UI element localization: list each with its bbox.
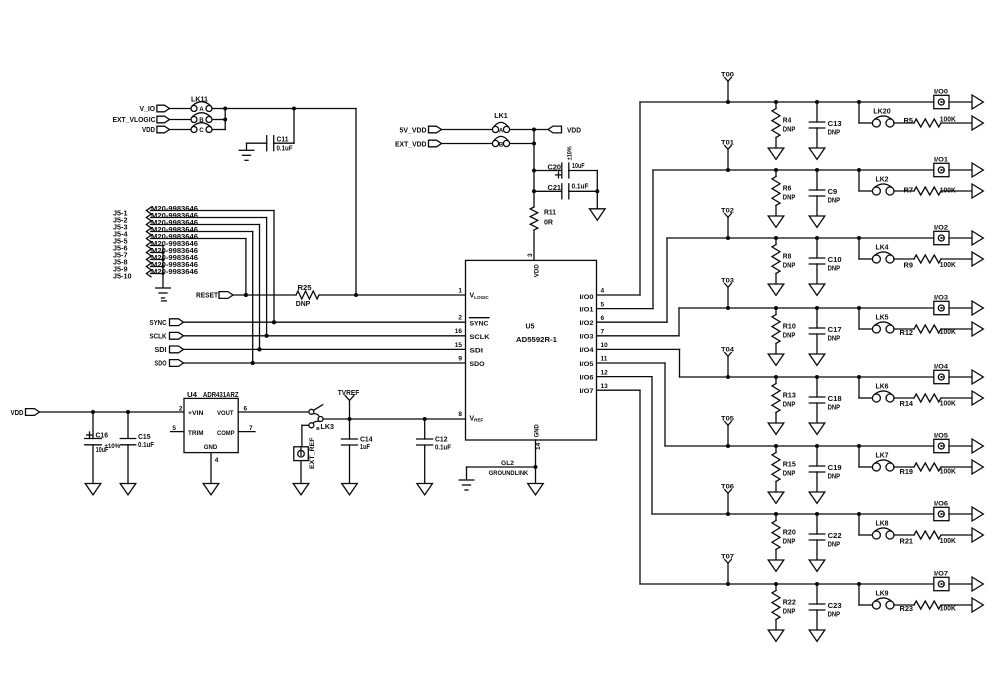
IC U4 ADR431ARZ bbox=[184, 392, 239, 453]
junction bbox=[272, 320, 276, 324]
connector EXT_VDD bbox=[395, 140, 442, 148]
svg-text:5: 5 bbox=[601, 301, 605, 308]
svg-text:V_IO: V_IO bbox=[140, 106, 156, 113]
svg-text:14: 14 bbox=[535, 442, 542, 450]
svg-text:10: 10 bbox=[601, 342, 609, 349]
junction bbox=[726, 236, 730, 240]
svg-text:±10%: ±10% bbox=[105, 444, 121, 450]
testpoint T01 bbox=[721, 140, 734, 170]
pin 7 number bbox=[601, 329, 605, 336]
svg-text:VDD: VDD bbox=[11, 410, 24, 417]
wire bbox=[184, 348, 466, 350]
resistor R22 DNP bbox=[772, 584, 796, 630]
junction bbox=[354, 293, 358, 297]
testpoint T03 bbox=[721, 278, 734, 308]
ground bbox=[203, 484, 219, 495]
ground bbox=[590, 209, 606, 220]
wire branch bbox=[859, 377, 873, 398]
offpage connector bbox=[972, 301, 983, 315]
wire I/O7 route bbox=[597, 390, 935, 584]
capacitor C21 0.1uF bbox=[548, 184, 590, 199]
wire bbox=[151, 259, 164, 261]
junction bbox=[726, 444, 730, 448]
svg-text:SDO: SDO bbox=[155, 361, 167, 368]
junction bbox=[774, 236, 778, 240]
junction bbox=[534, 465, 538, 469]
wire bbox=[534, 170, 562, 172]
jumper LK5 bbox=[872, 315, 894, 333]
pin 16 number bbox=[455, 328, 463, 335]
junction bbox=[162, 258, 165, 261]
capacitor C23 DNP bbox=[809, 584, 841, 630]
svg-text:R20: R20 bbox=[783, 530, 796, 537]
wire bbox=[894, 258, 914, 260]
junction bbox=[774, 582, 778, 586]
svg-text:7: 7 bbox=[249, 425, 253, 432]
pin 10 number bbox=[601, 342, 609, 349]
svg-text:R23: R23 bbox=[900, 606, 914, 613]
ground bbox=[768, 354, 784, 365]
ground bbox=[768, 630, 784, 641]
wire bbox=[319, 294, 465, 296]
svg-text:SCLK: SCLK bbox=[470, 334, 490, 341]
ground bbox=[85, 484, 101, 495]
ground bbox=[809, 423, 825, 434]
svg-text:EXT_REF: EXT_REF bbox=[309, 437, 316, 469]
wire I/O2 route bbox=[597, 238, 935, 322]
testpoint TVREF bbox=[338, 390, 360, 419]
junction bbox=[251, 361, 255, 365]
svg-text:J5-2: J5-2 bbox=[113, 217, 128, 224]
junction bbox=[815, 236, 819, 240]
offpage connector bbox=[972, 507, 983, 521]
ground bbox=[156, 288, 171, 298]
svg-text:SCLK: SCLK bbox=[150, 333, 167, 340]
svg-text:T00: T00 bbox=[721, 72, 734, 79]
pin 6 number bbox=[601, 315, 605, 322]
capacitor C12 0.1uF bbox=[417, 419, 452, 484]
svg-text:R15: R15 bbox=[783, 462, 796, 469]
svg-text:C15: C15 bbox=[138, 434, 151, 441]
ground bbox=[809, 284, 825, 295]
resistor R14 100K bbox=[900, 394, 956, 408]
connector I/O0 bbox=[934, 89, 949, 109]
net GL2 GROUNDLINK bbox=[467, 460, 536, 479]
connector I/O5 bbox=[934, 433, 949, 453]
svg-text:I/O0: I/O0 bbox=[934, 89, 948, 96]
pin 15 number bbox=[455, 342, 463, 349]
svg-text:ADR431ARZ: ADR431ARZ bbox=[203, 392, 239, 399]
resistor R15 DNP bbox=[772, 446, 796, 492]
svg-text:9: 9 bbox=[458, 355, 462, 362]
svg-text:C19: C19 bbox=[828, 465, 842, 472]
wire I/O5 route bbox=[597, 363, 935, 446]
junction bbox=[815, 100, 819, 104]
junction bbox=[857, 582, 861, 586]
ground bbox=[809, 354, 825, 365]
pin 5 number bbox=[601, 301, 605, 308]
junction bbox=[726, 375, 730, 379]
ground bbox=[768, 216, 784, 227]
offpage connector bbox=[972, 391, 983, 405]
svg-text:R5: R5 bbox=[904, 118, 914, 125]
svg-text:C13: C13 bbox=[828, 121, 842, 128]
connector I/O6 bbox=[934, 501, 949, 521]
testpoint T07 bbox=[721, 554, 734, 584]
svg-text:10uF: 10uF bbox=[572, 163, 585, 170]
svg-text:I/O3: I/O3 bbox=[580, 334, 594, 341]
svg-text:DNP: DNP bbox=[828, 473, 841, 480]
svg-text:EXT_VLOGIC: EXT_VLOGIC bbox=[113, 117, 156, 124]
svg-text:T02: T02 bbox=[721, 208, 734, 215]
junction bbox=[857, 444, 861, 448]
svg-text:I/O2: I/O2 bbox=[580, 320, 594, 327]
svg-text:M20-9983646: M20-9983646 bbox=[151, 241, 198, 248]
resistor R7 100K bbox=[904, 187, 956, 195]
ground bbox=[768, 284, 784, 295]
svg-text:C: C bbox=[199, 127, 204, 134]
connector I/O2 bbox=[934, 225, 949, 245]
svg-text:DNP: DNP bbox=[783, 263, 796, 270]
wire bbox=[151, 266, 164, 268]
svg-text:DNP: DNP bbox=[828, 265, 841, 272]
capacitor C17 DNP bbox=[809, 308, 841, 354]
svg-text:GND: GND bbox=[204, 444, 218, 451]
svg-text:J5-4: J5-4 bbox=[113, 231, 128, 238]
junction bbox=[857, 236, 861, 240]
svg-text:C14: C14 bbox=[360, 437, 373, 444]
svg-text:R21: R21 bbox=[900, 539, 914, 546]
junction bbox=[223, 107, 227, 122]
svg-text:5V_VDD: 5V_VDD bbox=[400, 127, 427, 134]
wire bbox=[949, 513, 972, 515]
junction bbox=[595, 189, 599, 193]
capacitor C10 DNP bbox=[809, 238, 841, 284]
jumper LK8 bbox=[872, 521, 894, 539]
svg-text:J5-6: J5-6 bbox=[113, 245, 128, 252]
testpoint T05 bbox=[721, 416, 734, 446]
ground bbox=[768, 492, 784, 503]
junction bbox=[162, 272, 165, 275]
pin 14 number bbox=[535, 442, 542, 450]
resistor R8 DNP bbox=[772, 238, 796, 284]
wire bbox=[302, 425, 309, 447]
ground bbox=[768, 148, 784, 159]
svg-text:DNP: DNP bbox=[828, 335, 841, 342]
svg-text:DNP: DNP bbox=[828, 197, 841, 204]
svg-text:2: 2 bbox=[179, 406, 183, 413]
wire branch bbox=[859, 102, 873, 123]
wire bbox=[949, 237, 972, 239]
svg-text:J5-5: J5-5 bbox=[113, 238, 128, 245]
wire branch bbox=[859, 446, 873, 467]
junction bbox=[857, 375, 861, 379]
svg-text:8: 8 bbox=[458, 411, 462, 418]
svg-text:C20: C20 bbox=[548, 165, 562, 172]
junction bbox=[726, 512, 730, 516]
connector J5 pin J5-8 bbox=[113, 255, 198, 267]
svg-text:M20-9983646: M20-9983646 bbox=[151, 262, 198, 269]
junction bbox=[774, 375, 778, 379]
junction bbox=[265, 334, 269, 338]
svg-text:LK20: LK20 bbox=[873, 109, 891, 116]
svg-text:100K: 100K bbox=[940, 329, 956, 336]
svg-text:SDI: SDI bbox=[470, 347, 484, 354]
wire bbox=[151, 211, 275, 323]
wire bbox=[941, 466, 972, 468]
connector SCLK bbox=[150, 332, 184, 340]
wire bbox=[184, 362, 466, 364]
wire bbox=[151, 232, 253, 364]
svg-text:GROUNDLINK: GROUNDLINK bbox=[489, 470, 529, 477]
junction bbox=[815, 582, 819, 586]
wire U4 GND pin 4 bbox=[211, 453, 219, 484]
junction bbox=[162, 265, 165, 268]
wire bbox=[442, 143, 492, 145]
wire branch bbox=[859, 238, 873, 259]
offpage connector bbox=[972, 184, 983, 198]
wire I/O0 route bbox=[597, 102, 935, 295]
capacitor C18 DNP bbox=[809, 377, 841, 423]
junction bbox=[815, 512, 819, 516]
svg-text:C12: C12 bbox=[435, 437, 448, 444]
junction bbox=[774, 100, 778, 104]
wire bbox=[941, 258, 972, 260]
jumper LK20 bbox=[872, 109, 894, 127]
connector EXT_VLOGIC bbox=[113, 116, 170, 124]
svg-text:COMP: COMP bbox=[217, 430, 235, 437]
wire bbox=[534, 171, 597, 209]
svg-text:R12: R12 bbox=[900, 330, 914, 337]
svg-text:J5-3: J5-3 bbox=[113, 224, 128, 231]
svg-text:B: B bbox=[499, 141, 504, 148]
svg-text:R19: R19 bbox=[900, 469, 914, 476]
svg-text:I/O0: I/O0 bbox=[580, 294, 594, 301]
wire branch bbox=[859, 514, 873, 535]
wire GND pin bbox=[535, 440, 537, 484]
wire bbox=[151, 245, 164, 247]
wire bbox=[170, 119, 191, 121]
pin 5 TRIM stub bbox=[171, 425, 185, 432]
jumper LK4 bbox=[872, 245, 894, 263]
pin 1 number bbox=[458, 288, 462, 295]
offpage connector bbox=[972, 460, 983, 474]
pin 8 number bbox=[458, 411, 462, 418]
svg-text:C21: C21 bbox=[548, 185, 562, 192]
ground bbox=[809, 492, 825, 503]
svg-text:M20-9983646: M20-9983646 bbox=[151, 234, 198, 241]
junction bbox=[251, 361, 255, 365]
junction bbox=[857, 100, 861, 104]
svg-text:R11: R11 bbox=[544, 210, 556, 217]
wire bbox=[151, 239, 246, 296]
svg-text:DNP: DNP bbox=[783, 333, 796, 340]
wire bbox=[151, 252, 164, 254]
wire I/O1 route bbox=[597, 170, 935, 309]
wire bbox=[533, 230, 535, 260]
svg-text:M20-9983646: M20-9983646 bbox=[151, 248, 198, 255]
connector EXT_REF bbox=[294, 437, 316, 469]
svg-text:I/O1: I/O1 bbox=[934, 157, 948, 164]
wire bbox=[151, 218, 267, 336]
wire bbox=[212, 109, 225, 130]
ground bbox=[417, 484, 433, 495]
svg-text:R13: R13 bbox=[783, 393, 796, 400]
connector J5 pin J5-4 bbox=[113, 227, 198, 239]
connector 5V_VDD bbox=[400, 126, 442, 134]
svg-text:0.1uF: 0.1uF bbox=[435, 444, 452, 451]
svg-text:3: 3 bbox=[527, 253, 534, 257]
connector I/O4 bbox=[934, 364, 949, 384]
svg-text:SYNC: SYNC bbox=[470, 320, 489, 327]
connector J5 pin J5-7 bbox=[113, 248, 198, 259]
svg-text:I/O4: I/O4 bbox=[580, 347, 594, 354]
resistor R9 100K bbox=[904, 255, 956, 270]
pin 4 number bbox=[601, 288, 605, 295]
ground bbox=[342, 484, 358, 495]
wire bbox=[941, 534, 972, 536]
ground bbox=[528, 484, 544, 495]
svg-text:DNP: DNP bbox=[783, 609, 796, 616]
junction bbox=[726, 168, 730, 172]
connector J5 pin J5-9 bbox=[113, 262, 198, 274]
wire bbox=[941, 397, 972, 399]
junction bbox=[244, 293, 248, 297]
junction bbox=[774, 444, 778, 448]
svg-text:100K: 100K bbox=[940, 262, 956, 269]
connector I/O1 bbox=[934, 157, 949, 177]
wire I/O3 route bbox=[597, 308, 935, 336]
wire bbox=[894, 397, 914, 399]
wire bbox=[274, 109, 294, 144]
ground bbox=[120, 484, 136, 495]
svg-text:R25: R25 bbox=[298, 285, 312, 292]
junction bbox=[857, 168, 861, 172]
wire VOUT bbox=[238, 411, 309, 413]
junction bbox=[265, 334, 269, 338]
svg-text:C22: C22 bbox=[828, 533, 842, 540]
offpage connector bbox=[972, 163, 983, 177]
svg-text:U5: U5 bbox=[526, 324, 535, 331]
wire bbox=[170, 129, 191, 131]
resistor R5 100K bbox=[904, 117, 956, 128]
wire bbox=[941, 190, 972, 192]
svg-text:0R: 0R bbox=[544, 220, 553, 227]
wire branch bbox=[859, 308, 873, 329]
wire bbox=[894, 534, 914, 536]
resistor R13 DNP bbox=[772, 377, 796, 423]
junction bbox=[348, 417, 427, 421]
svg-text:C9: C9 bbox=[828, 189, 838, 196]
wire bbox=[233, 294, 296, 296]
svg-text:DNP: DNP bbox=[828, 611, 841, 618]
svg-text:DNP: DNP bbox=[296, 301, 311, 308]
testpoint T06 bbox=[721, 484, 734, 514]
svg-text:GND: GND bbox=[534, 424, 541, 438]
wire bbox=[894, 604, 914, 606]
connector I/O3 bbox=[934, 295, 949, 315]
svg-text:LK4: LK4 bbox=[876, 245, 889, 252]
svg-text:I/O5: I/O5 bbox=[580, 361, 594, 368]
svg-text:100K: 100K bbox=[940, 401, 956, 408]
offpage connector bbox=[972, 95, 983, 109]
resistor R21 100K bbox=[900, 531, 956, 546]
wire I/O4 route bbox=[597, 349, 935, 377]
jumper LK7 bbox=[872, 453, 894, 471]
svg-text:0.1uF: 0.1uF bbox=[138, 442, 155, 449]
resistor R25 DNP bbox=[296, 285, 319, 308]
wire bbox=[949, 445, 972, 447]
svg-text:11: 11 bbox=[601, 356, 608, 363]
svg-text:DNP: DNP bbox=[783, 402, 796, 409]
svg-text:C17: C17 bbox=[828, 327, 842, 334]
wire bbox=[151, 273, 164, 275]
capacitor C16 10uF bbox=[85, 412, 121, 484]
connector VDD (VLOGIC select input) bbox=[142, 126, 170, 134]
ground bbox=[809, 630, 825, 641]
svg-text:T05: T05 bbox=[721, 416, 734, 423]
svg-text:J5-1: J5-1 bbox=[113, 210, 128, 217]
capacitor C15 0.1uF bbox=[120, 412, 154, 484]
pin 12 number bbox=[601, 369, 609, 376]
testpoint T04 bbox=[721, 347, 734, 377]
svg-text:C18: C18 bbox=[828, 396, 842, 403]
svg-text:U4: U4 bbox=[187, 392, 197, 399]
offpage connector bbox=[972, 116, 983, 130]
svg-text:R9: R9 bbox=[904, 263, 914, 270]
connector J5 pin J5-3 bbox=[113, 220, 198, 232]
pin 11 number bbox=[601, 356, 608, 363]
pin 9 number bbox=[458, 355, 462, 362]
svg-text:LK8: LK8 bbox=[876, 521, 889, 528]
junction bbox=[857, 512, 861, 516]
offpage connector bbox=[972, 439, 983, 453]
svg-text:I/O2: I/O2 bbox=[934, 225, 948, 232]
resistor R23 100K bbox=[900, 601, 956, 613]
junction bbox=[774, 512, 778, 516]
svg-text:SDI: SDI bbox=[155, 347, 167, 354]
wire bbox=[941, 604, 972, 606]
svg-text:R4: R4 bbox=[783, 118, 792, 125]
resistor R12 100K bbox=[900, 325, 956, 337]
junction bbox=[244, 293, 248, 297]
svg-text:LK3: LK3 bbox=[321, 424, 335, 431]
wire bbox=[941, 122, 972, 124]
ground bbox=[809, 216, 825, 227]
svg-text:100K: 100K bbox=[940, 538, 956, 545]
junction bbox=[815, 306, 819, 310]
junction bbox=[726, 100, 730, 104]
testpoint T02 bbox=[721, 208, 734, 238]
wire VDD net bbox=[510, 130, 548, 208]
pin 2 number bbox=[179, 406, 183, 413]
svg-text:M20-9983646: M20-9983646 bbox=[151, 269, 198, 276]
svg-text:R6: R6 bbox=[783, 186, 792, 193]
connector V_IO bbox=[140, 105, 170, 113]
svg-text:DNP: DNP bbox=[783, 539, 796, 546]
svg-text:C10: C10 bbox=[828, 257, 842, 264]
wire bbox=[247, 143, 267, 150]
junction bbox=[258, 347, 262, 351]
svg-text:TRIM: TRIM bbox=[188, 430, 204, 437]
svg-text:VDD: VDD bbox=[567, 128, 581, 135]
capacitor C22 DNP bbox=[809, 514, 841, 560]
wire bbox=[894, 466, 914, 468]
svg-text:100K: 100K bbox=[940, 469, 956, 476]
svg-text:5: 5 bbox=[172, 425, 176, 432]
connector J5 pin J5-1 bbox=[113, 206, 198, 218]
svg-text:T03: T03 bbox=[721, 278, 734, 285]
